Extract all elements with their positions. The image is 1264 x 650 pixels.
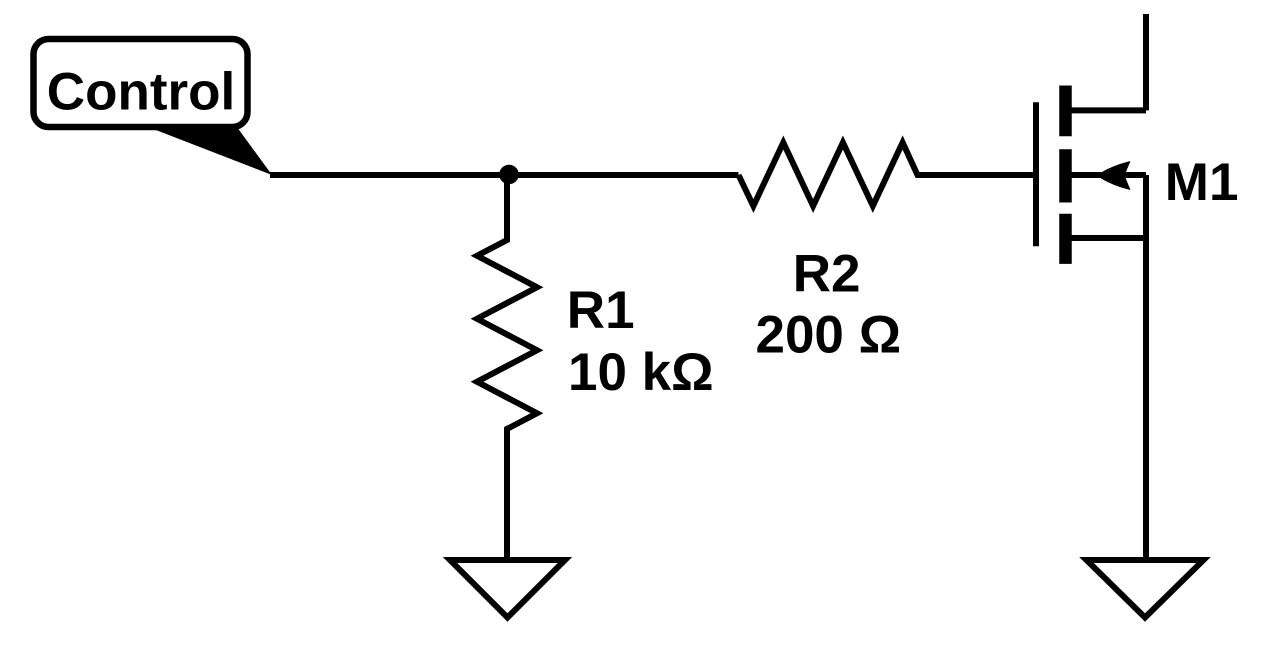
svg-text:R2: R2	[793, 244, 861, 303]
svg-text:R1: R1	[567, 281, 635, 340]
svg-text:200 Ω: 200 Ω	[755, 306, 901, 365]
svg-text:M1: M1	[1165, 153, 1239, 212]
svg-text:Control: Control	[47, 63, 235, 122]
svg-text:10 kΩ: 10 kΩ	[568, 343, 714, 402]
